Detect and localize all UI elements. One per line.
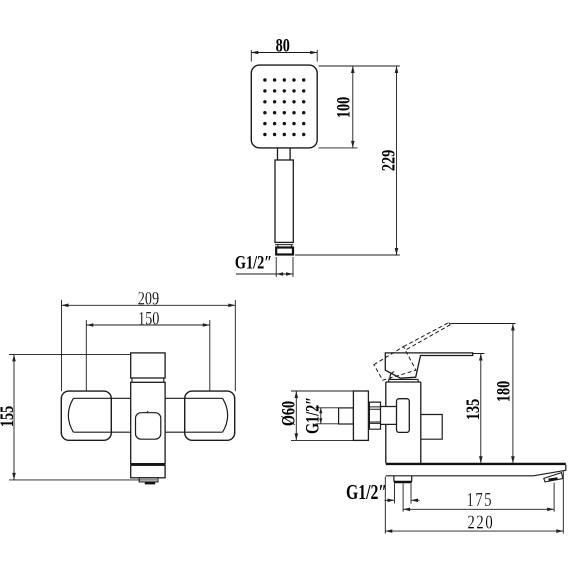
svg-text:80: 80: [276, 34, 290, 55]
svg-text:100: 100: [333, 97, 354, 118]
svg-text:155: 155: [0, 406, 18, 427]
lever cap: [389, 379, 419, 382]
lever alternate position (dashed bar): [404, 323, 451, 350]
dimension diameter 60: [291, 391, 353, 440]
mixer body (front): [131, 382, 165, 463]
dimension 229: [295, 66, 400, 255]
right bar end arc: [223, 398, 228, 432]
bottom outlet lip: [145, 482, 155, 484]
dimension 220: [385, 471, 563, 534]
shower hose outlet stub: [394, 476, 412, 482]
svg-text:229: 229: [377, 150, 398, 171]
dimension 100: [319, 66, 400, 148]
dimension 180: [451, 324, 516, 464]
shower head neck: [278, 148, 291, 160]
nut (side): [369, 402, 380, 429]
spout outline: [386, 465, 566, 476]
wall pipe G1/2 (side): [339, 408, 354, 424]
lever underside arc: [390, 372, 394, 380]
svg-text:209: 209: [138, 288, 159, 309]
svg-text:G1/2″: G1/2″: [301, 397, 322, 434]
right connector bar: [165, 398, 223, 432]
left wall flange (front): [61, 391, 111, 440]
right side block: [421, 415, 442, 440]
body lower section: [131, 465, 165, 478]
boss on body (side): [397, 399, 410, 433]
dimension G1/2 stub: [385, 484, 420, 504]
svg-text:175: 175: [466, 488, 493, 511]
spout aerator tip: [544, 473, 563, 482]
button on body: [136, 413, 161, 440]
dimension 155: [9, 354, 157, 480]
svg-text:135: 135: [462, 399, 483, 420]
lever handle (solid): [385, 353, 472, 378]
handle end cap G1/2 thread: [276, 248, 293, 255]
mixer top cap (front): [131, 353, 165, 378]
right wall flange (front): [185, 391, 235, 440]
dimension G1/2 wall pipe: [316, 408, 339, 424]
body divider thick line: [131, 463, 165, 465]
dimension line for hand shower thread: [236, 257, 293, 277]
dimension 135: [473, 354, 485, 464]
shower handle tube: [275, 160, 293, 242]
stub bottom thick: [394, 481, 412, 483]
svg-text:G1/2″: G1/2″: [346, 481, 387, 505]
svg-text:Ø60: Ø60: [277, 401, 298, 426]
aerator dark band: [549, 478, 558, 479]
wall flange flange (side): [353, 391, 368, 440]
spout top (thick): [386, 463, 566, 465]
connector shaft: [381, 407, 397, 425]
svg-text:180: 180: [493, 381, 514, 402]
mixer body (side): [386, 382, 421, 463]
left bar end arc: [68, 398, 73, 432]
dimension 80: [251, 50, 317, 62]
dimension 175: [403, 483, 554, 512]
svg-text:150: 150: [138, 307, 159, 328]
button notch: [147, 411, 149, 413]
svg-text:G1/2″: G1/2″: [235, 252, 272, 273]
shower head body: [251, 65, 317, 148]
lever alternate position (dashed square): [374, 347, 416, 381]
left connector bar: [73, 398, 130, 432]
bottom outlet: [139, 478, 158, 482]
dimension 209: [62, 300, 236, 391]
spray nozzle dots: [263, 78, 305, 136]
mixer neck (front): [132, 378, 164, 382]
dimension 150: [86, 320, 210, 391]
handle ring lines: [275, 245, 293, 248]
svg-text:220: 220: [468, 510, 495, 533]
